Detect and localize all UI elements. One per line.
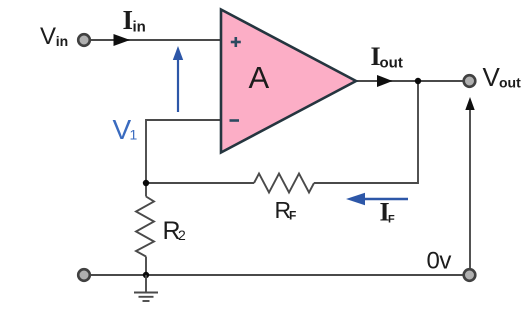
resistor RF	[254, 174, 314, 193]
wire: inverting input wire from V1 node	[146, 120, 221, 183]
label Iin	[123, 5, 146, 36]
op-amp minus input symbol	[230, 119, 240, 122]
wire: R2 bottom lead	[145, 257, 147, 276]
svg-text:I: I	[123, 5, 134, 35]
junction node: output feedback node	[415, 78, 421, 84]
wire: Vin input wire to non-inverting input	[90, 39, 221, 41]
terminal: Vin input terminal	[78, 34, 90, 46]
label IF	[380, 198, 396, 227]
svg-text:0v: 0v	[427, 248, 452, 275]
wire: output wire from op-amp to Vout terminal	[356, 80, 463, 82]
svg-text:in: in	[133, 19, 146, 36]
ground symbol	[134, 275, 158, 301]
label Vout	[483, 62, 522, 92]
wire: R2 top lead	[145, 183, 147, 197]
terminal: Vout output terminal	[464, 75, 476, 87]
op-amp plus input symbol	[231, 37, 241, 47]
junction node: V1 node at inverting input branch	[143, 180, 149, 186]
terminal: 0v rail left terminal	[78, 269, 90, 281]
label RF	[275, 197, 297, 223]
op-amp A	[221, 10, 356, 153]
svg-text:A: A	[249, 60, 270, 95]
svg-text:1: 1	[130, 127, 138, 143]
junction node: R2 to 0v rail	[143, 272, 149, 278]
label Iout	[371, 42, 403, 72]
svg-text:V: V	[483, 62, 501, 92]
svg-text:F: F	[289, 209, 296, 223]
label R2	[163, 217, 187, 245]
svg-text:in: in	[56, 33, 68, 49]
svg-text:V: V	[40, 23, 56, 50]
arrow: IF feedback current arrow pointing left (blue)	[346, 193, 408, 206]
terminal: 0v rail right terminal	[464, 269, 476, 281]
svg-text:out: out	[380, 55, 403, 72]
svg-text:2: 2	[178, 227, 186, 243]
svg-text:F: F	[388, 214, 395, 226]
arrow: Vout voltage arrow pointing up	[465, 97, 474, 268]
svg-text:out: out	[499, 75, 521, 91]
label Vin	[40, 23, 68, 50]
wire: feedback wire left segment from node A to RF	[146, 182, 254, 184]
resistor R2	[136, 197, 154, 257]
wire: feedback wire right segment from RF up to output node	[314, 81, 418, 183]
arrowhead: Iout current direction arrow on output wire	[377, 75, 393, 87]
wire: 0v bottom rail	[90, 274, 464, 276]
arrowhead: Iin current direction arrow on input wire	[114, 34, 131, 46]
arrow: V1 voltage arrow pointing up (blue)	[173, 46, 183, 112]
label V1 (blue)	[113, 114, 138, 145]
